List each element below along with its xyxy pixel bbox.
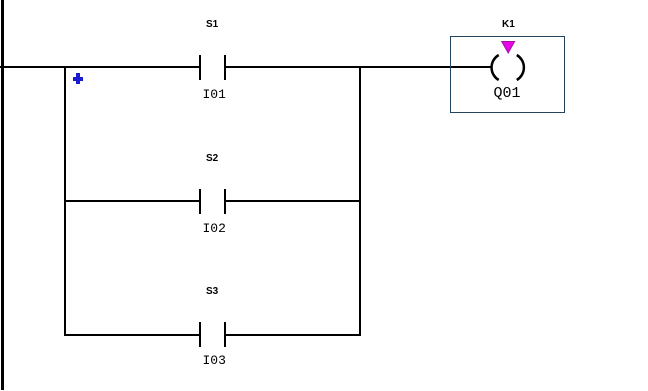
wire: rung 2, contact S2 to right vertical (224, 200, 361, 202)
wire: left parallel-branch vertical (64, 66, 66, 336)
wire: rung 3, left vertical to contact S3 (64, 334, 201, 336)
contact S1 (N.O. make contact), operand I01 (199, 55, 226, 80)
wire: rung 1, contact S1 to coil K1 (225, 66, 491, 68)
label S3 (206, 286, 218, 297)
label S1 (206, 19, 218, 30)
wire: right parallel-branch vertical (359, 66, 361, 336)
label I02 (203, 221, 226, 236)
coil K1 (relay output), operand Q01 (486, 50, 529, 86)
cursor marker (blue plus) (73, 73, 83, 84)
coil K1 selection box (450, 36, 565, 113)
breakpoint marker (magenta triangle) (500, 40, 517, 55)
label I01 (203, 87, 226, 102)
contact S2 (N.O. make contact), operand I02 (199, 189, 226, 214)
label S2 (206, 153, 218, 164)
label Q01 (494, 85, 521, 102)
wire: rung 3, contact S3 to right vertical (224, 334, 361, 336)
wire: rung 1, rail to contact S1 (0, 66, 200, 68)
contact S3 (N.O. make contact), operand I03 (199, 322, 226, 347)
label I03 (203, 353, 226, 368)
power rail (left bus bar) (1, 0, 4, 390)
label K1 (502, 19, 515, 30)
wire: rung 2, left vertical to contact S2 (64, 200, 201, 202)
